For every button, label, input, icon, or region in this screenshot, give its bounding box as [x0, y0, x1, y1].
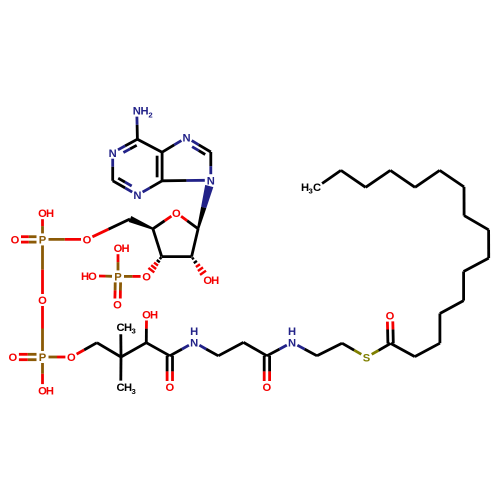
svg-text:O: O	[67, 352, 76, 364]
svg-text:O: O	[165, 382, 174, 394]
svg-text:O: O	[172, 208, 181, 220]
svg-text:H: H	[81, 271, 89, 283]
svg-text:H: H	[121, 243, 129, 255]
svg-text:O: O	[83, 235, 92, 247]
svg-text:3: 3	[131, 327, 135, 336]
svg-text:C: C	[313, 182, 321, 194]
svg-text:H: H	[46, 386, 54, 398]
svg-text:N: N	[288, 337, 296, 349]
svg-text:O: O	[9, 352, 18, 364]
svg-text:N: N	[190, 337, 198, 349]
svg-text:H: H	[150, 310, 158, 322]
svg-text:N: N	[207, 175, 215, 187]
svg-text:H: H	[211, 275, 219, 287]
svg-text:N: N	[133, 190, 141, 202]
svg-text:S: S	[363, 352, 371, 364]
svg-text:N: N	[182, 133, 190, 145]
svg-text:P: P	[114, 272, 122, 284]
svg-text:H: H	[288, 326, 296, 338]
svg-text:O: O	[142, 272, 151, 284]
svg-text:O: O	[263, 382, 272, 394]
svg-text:N: N	[109, 148, 117, 160]
svg-text:P: P	[39, 235, 47, 247]
svg-text:O: O	[38, 295, 47, 307]
svg-text:2: 2	[148, 110, 152, 119]
svg-text:O: O	[88, 271, 97, 283]
svg-text:H: H	[190, 326, 198, 338]
svg-text:O: O	[386, 311, 395, 323]
svg-text:3: 3	[131, 387, 135, 396]
svg-text:H: H	[46, 208, 54, 220]
svg-text:O: O	[113, 300, 122, 312]
svg-text:O: O	[11, 235, 20, 247]
svg-text:P: P	[39, 352, 47, 364]
